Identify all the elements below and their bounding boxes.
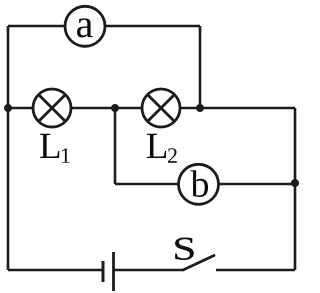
ammeter a circle: [65, 6, 105, 46]
wire: top horizontal: [8, 25, 200, 28]
wire: switch to right corner: [216, 269, 295, 272]
meter b circle: [179, 164, 219, 204]
wire: left vertical: [7, 26, 10, 270]
wire: bottom left to battery: [8, 269, 103, 272]
lamp L1 cross: [39, 95, 66, 122]
switch S arm: [183, 256, 214, 271]
wire: branch vertical to meter b: [114, 108, 117, 184]
node dot between lamps: [111, 104, 119, 112]
node dot right edge: [291, 179, 299, 187]
node dot right of L2: [196, 104, 204, 112]
label b: [191, 170, 209, 197]
wire: right vertical: [294, 108, 297, 270]
wire: right drop from top to node: [199, 26, 202, 108]
wire: middle horizontal row: [8, 107, 295, 110]
lamp L2 cross: [148, 95, 175, 122]
battery: long plate (positive): [112, 252, 115, 291]
label L2: [147, 134, 166, 158]
wire: battery to switch: [114, 269, 184, 272]
label a: [77, 18, 93, 37]
label L1: [40, 134, 59, 158]
node dot left: [4, 104, 12, 112]
label S: [175, 238, 193, 260]
lamp L2 circle: [142, 89, 180, 127]
lamp L1 circle: [33, 89, 71, 127]
battery: short plate (negative): [102, 261, 105, 282]
wire: branch horizontal through meter b: [115, 183, 295, 186]
